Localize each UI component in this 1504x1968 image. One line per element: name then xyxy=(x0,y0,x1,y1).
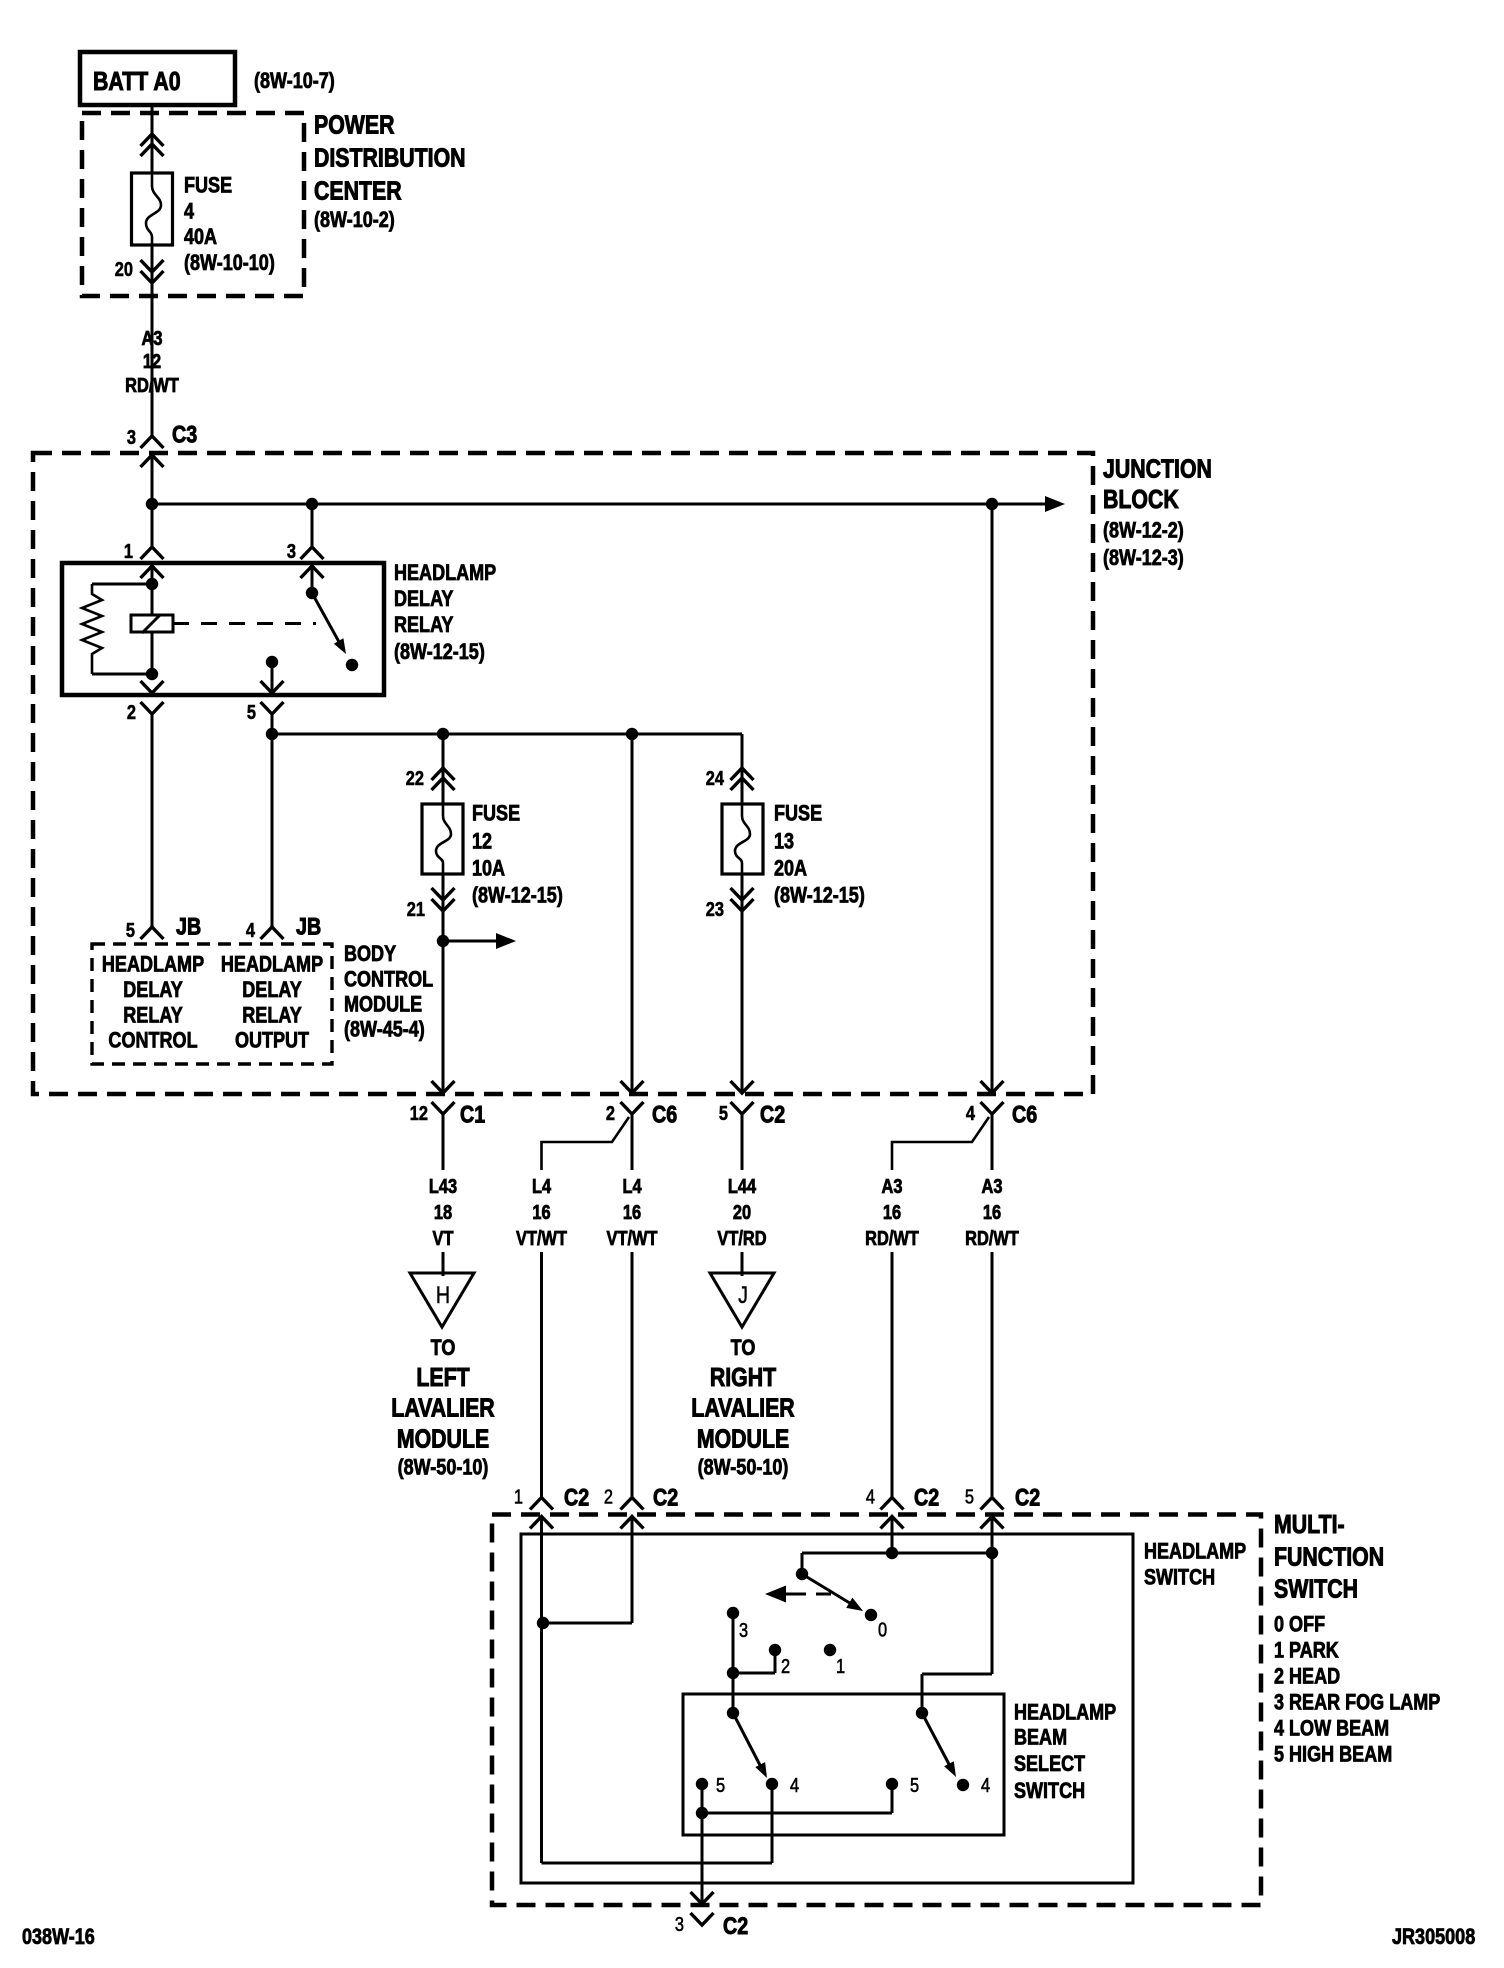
svg-text:BODY: BODY xyxy=(344,942,397,966)
svg-text:2 HEAD: 2 HEAD xyxy=(1274,1665,1340,1689)
svg-text:FUSE: FUSE xyxy=(774,802,822,826)
svg-text:(8W-12-3): (8W-12-3) xyxy=(1103,546,1184,570)
svg-text:RELAY: RELAY xyxy=(123,1004,183,1028)
svg-text:MULTI-: MULTI- xyxy=(1274,1510,1345,1540)
svg-text:3: 3 xyxy=(675,1912,684,1935)
svg-text:24: 24 xyxy=(706,766,725,789)
svg-text:VT/WT: VT/WT xyxy=(607,1226,658,1249)
svg-text:12: 12 xyxy=(143,349,161,372)
svg-text:3: 3 xyxy=(127,425,136,448)
svg-text:JB: JB xyxy=(296,913,321,940)
svg-text:0 OFF: 0 OFF xyxy=(1274,1613,1325,1637)
svg-text:C2: C2 xyxy=(1015,1484,1040,1511)
svg-text:HEADLAMP: HEADLAMP xyxy=(1144,1540,1246,1564)
svg-text:C6: C6 xyxy=(652,1101,677,1128)
svg-text:SELECT: SELECT xyxy=(1014,1752,1086,1776)
svg-text:21: 21 xyxy=(407,897,425,920)
svg-text:HEADLAMP: HEADLAMP xyxy=(221,953,323,977)
svg-text:DISTRIBUTION: DISTRIBUTION xyxy=(314,144,466,174)
svg-text:4: 4 xyxy=(966,1101,976,1124)
svg-text:RD/WT: RD/WT xyxy=(125,373,179,396)
svg-text:CENTER: CENTER xyxy=(314,177,402,207)
svg-text:BEAM: BEAM xyxy=(1014,1726,1067,1750)
svg-text:C1: C1 xyxy=(460,1101,485,1128)
svg-text:4 LOW BEAM: 4 LOW BEAM xyxy=(1274,1717,1389,1741)
svg-text:1: 1 xyxy=(514,1485,523,1508)
svg-text:0: 0 xyxy=(878,1618,887,1641)
svg-text:(8W-10-7): (8W-10-7) xyxy=(254,69,335,93)
svg-text:OUTPUT: OUTPUT xyxy=(235,1029,310,1053)
svg-text:JB: JB xyxy=(176,913,201,940)
svg-text:TO: TO xyxy=(731,1336,756,1360)
svg-text:SWITCH: SWITCH xyxy=(1144,1566,1215,1590)
svg-text:L4: L4 xyxy=(622,1174,642,1197)
svg-text:20: 20 xyxy=(115,257,133,280)
svg-text:16: 16 xyxy=(883,1200,901,1223)
svg-text:12: 12 xyxy=(472,830,492,854)
svg-text:A3: A3 xyxy=(142,326,163,349)
svg-text:22: 22 xyxy=(406,766,424,789)
svg-text:FUNCTION: FUNCTION xyxy=(1274,1543,1384,1573)
svg-text:10A: 10A xyxy=(472,857,505,881)
svg-text:(8W-45-4): (8W-45-4) xyxy=(344,1018,425,1042)
svg-text:2: 2 xyxy=(127,700,136,723)
svg-text:1: 1 xyxy=(836,1654,845,1677)
svg-text:(8W-50-10): (8W-50-10) xyxy=(398,1456,489,1480)
svg-text:CONTROL: CONTROL xyxy=(344,968,433,992)
svg-text:12: 12 xyxy=(410,1101,428,1124)
svg-text:C6: C6 xyxy=(1012,1101,1037,1128)
svg-text:RELAY: RELAY xyxy=(394,613,454,637)
svg-text:C2: C2 xyxy=(914,1484,939,1511)
svg-text:(8W-12-2): (8W-12-2) xyxy=(1103,519,1184,543)
svg-text:5: 5 xyxy=(965,1485,974,1508)
svg-text:5: 5 xyxy=(716,1773,725,1796)
svg-text:038W-16: 038W-16 xyxy=(22,1925,95,1949)
svg-text:RELAY: RELAY xyxy=(242,1004,302,1028)
svg-text:JUNCTION: JUNCTION xyxy=(1103,455,1212,485)
svg-text:J: J xyxy=(738,1281,748,1308)
svg-text:20A: 20A xyxy=(774,857,807,881)
svg-text:4: 4 xyxy=(790,1773,799,1796)
svg-text:3: 3 xyxy=(739,1618,748,1641)
svg-text:4: 4 xyxy=(981,1773,990,1796)
svg-text:L43: L43 xyxy=(429,1174,457,1197)
svg-text:RIGHT: RIGHT xyxy=(710,1363,777,1393)
svg-text:16: 16 xyxy=(532,1200,550,1223)
svg-text:C2: C2 xyxy=(564,1484,589,1511)
svg-text:(8W-10-10): (8W-10-10) xyxy=(184,251,275,275)
svg-text:CONTROL: CONTROL xyxy=(108,1029,197,1053)
svg-text:MODULE: MODULE xyxy=(344,993,422,1017)
svg-text:BLOCK: BLOCK xyxy=(1103,485,1179,515)
svg-text:2: 2 xyxy=(606,1101,615,1124)
svg-text:16: 16 xyxy=(983,1200,1001,1223)
svg-text:5: 5 xyxy=(719,1101,728,1124)
svg-text:(8W-12-15): (8W-12-15) xyxy=(394,640,485,664)
svg-text:(8W-50-10): (8W-50-10) xyxy=(698,1456,789,1480)
svg-text:SWITCH: SWITCH xyxy=(1274,1575,1358,1605)
svg-text:POWER: POWER xyxy=(314,111,395,141)
svg-text:MODULE: MODULE xyxy=(697,1425,789,1455)
svg-text:H: H xyxy=(436,1281,450,1308)
svg-text:18: 18 xyxy=(434,1200,452,1223)
svg-text:3: 3 xyxy=(287,539,296,562)
svg-text:DELAY: DELAY xyxy=(242,978,302,1002)
svg-text:BATT A0: BATT A0 xyxy=(93,67,181,97)
svg-text:(8W-12-15): (8W-12-15) xyxy=(774,884,865,908)
svg-text:5: 5 xyxy=(126,918,135,941)
svg-text:2: 2 xyxy=(604,1485,613,1508)
svg-text:13: 13 xyxy=(774,830,794,854)
svg-text:4: 4 xyxy=(866,1485,875,1508)
svg-text:C2: C2 xyxy=(760,1101,785,1128)
svg-text:VT/WT: VT/WT xyxy=(516,1226,567,1249)
svg-text:3 REAR FOG LAMP: 3 REAR FOG LAMP xyxy=(1274,1691,1440,1715)
svg-text:5: 5 xyxy=(910,1773,919,1796)
svg-text:VT/RD: VT/RD xyxy=(717,1226,766,1249)
svg-text:DELAY: DELAY xyxy=(123,978,183,1002)
svg-text:(8W-10-2): (8W-10-2) xyxy=(314,208,395,232)
svg-text:2: 2 xyxy=(781,1654,790,1677)
svg-text:16: 16 xyxy=(623,1200,641,1223)
svg-text:1 PARK: 1 PARK xyxy=(1274,1639,1339,1663)
svg-text:FUSE: FUSE xyxy=(184,174,232,198)
svg-text:23: 23 xyxy=(706,897,724,920)
svg-text:LAVALIER: LAVALIER xyxy=(391,1394,494,1424)
svg-text:4: 4 xyxy=(184,200,195,224)
svg-text:5: 5 xyxy=(247,700,256,723)
svg-text:RD/WT: RD/WT xyxy=(865,1226,919,1249)
svg-text:(8W-12-15): (8W-12-15) xyxy=(472,884,563,908)
svg-text:HEADLAMP: HEADLAMP xyxy=(394,561,496,585)
svg-text:L4: L4 xyxy=(532,1174,552,1197)
svg-text:RD/WT: RD/WT xyxy=(965,1226,1019,1249)
svg-text:20: 20 xyxy=(733,1200,751,1223)
svg-text:A3: A3 xyxy=(882,1174,903,1197)
svg-text:HEADLAMP: HEADLAMP xyxy=(102,953,204,977)
svg-text:C2: C2 xyxy=(653,1484,678,1511)
svg-text:L44: L44 xyxy=(728,1174,757,1197)
svg-text:MODULE: MODULE xyxy=(397,1425,489,1455)
svg-text:C3: C3 xyxy=(172,421,197,448)
svg-text:JR305008: JR305008 xyxy=(1392,1925,1475,1949)
svg-text:5 HIGH BEAM: 5 HIGH BEAM xyxy=(1274,1743,1392,1767)
svg-text:FUSE: FUSE xyxy=(472,802,520,826)
svg-text:C2: C2 xyxy=(723,1912,748,1939)
svg-text:LEFT: LEFT xyxy=(416,1363,470,1393)
svg-text:HEADLAMP: HEADLAMP xyxy=(1014,1701,1116,1725)
svg-text:A3: A3 xyxy=(982,1174,1003,1197)
svg-text:TO: TO xyxy=(431,1336,456,1360)
svg-text:1: 1 xyxy=(124,539,133,562)
svg-text:VT: VT xyxy=(433,1226,454,1249)
svg-text:LAVALIER: LAVALIER xyxy=(691,1394,794,1424)
svg-text:SWITCH: SWITCH xyxy=(1014,1779,1085,1803)
svg-text:40A: 40A xyxy=(184,225,217,249)
svg-text:4: 4 xyxy=(246,918,256,941)
svg-text:DELAY: DELAY xyxy=(394,587,454,611)
